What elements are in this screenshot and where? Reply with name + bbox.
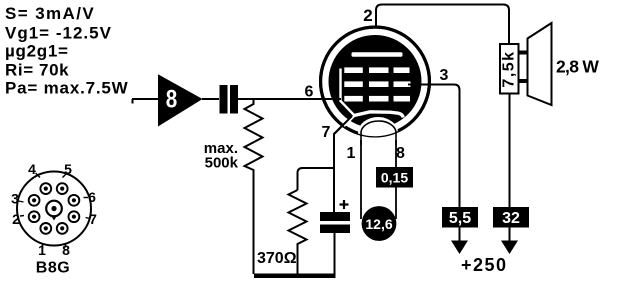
heater filament arc bbox=[361, 121, 396, 145]
cathode resistor 370 ohm bbox=[289, 190, 307, 274]
wire capacitor to tube grid bbox=[238, 98, 339, 100]
svg-text:32: 32 bbox=[502, 210, 520, 227]
svg-text:370Ω: 370Ω bbox=[257, 250, 297, 267]
outer circle thin edge across dome bbox=[320, 26, 431, 137]
svg-text:+250: +250 bbox=[461, 255, 508, 275]
svg-text:3: 3 bbox=[440, 67, 449, 84]
screen supply label 5,5 bbox=[442, 207, 478, 228]
heater voltage label 12,6 bbox=[362, 206, 397, 241]
supply arrow left bbox=[451, 241, 468, 255]
svg-text:4: 4 bbox=[28, 161, 36, 177]
heater dome cutout bbox=[358, 117, 398, 146]
supply arrow right bbox=[501, 241, 518, 255]
grid g2 row dashes bbox=[344, 81, 363, 87]
anode plate bar bbox=[352, 52, 403, 56]
svg-text:6: 6 bbox=[88, 189, 96, 205]
tube envelope U1 outer ring bbox=[321, 27, 430, 136]
svg-text:500k: 500k bbox=[205, 155, 239, 172]
svg-text:7: 7 bbox=[322, 124, 331, 141]
grid g3 row dashes bbox=[344, 67, 363, 73]
socket pin 7 bbox=[69, 211, 80, 222]
loudspeaker cone bbox=[528, 23, 552, 105]
ground rail bbox=[254, 274, 336, 279]
svg-text:3: 3 bbox=[11, 191, 19, 207]
svg-text:6: 6 bbox=[305, 84, 314, 101]
svg-text:S= 3mA/V: S= 3mA/V bbox=[5, 4, 95, 23]
socket pin 3 bbox=[29, 195, 40, 206]
svg-text:8: 8 bbox=[396, 145, 405, 162]
svg-text:2,8 W: 2,8 W bbox=[556, 57, 599, 77]
svg-text:1: 1 bbox=[347, 145, 356, 162]
wire pin7 crossing ring bbox=[334, 116, 352, 134]
svg-text:Ri= 70k: Ri= 70k bbox=[5, 61, 69, 80]
g3 to cathode internal strap bbox=[341, 69, 355, 127]
svg-text:7: 7 bbox=[89, 211, 97, 227]
wire triangle to capacitor bbox=[202, 98, 219, 100]
heater wire pin 8 bbox=[395, 140, 397, 219]
socket pin 5 bbox=[57, 183, 68, 194]
svg-text:5,5: 5,5 bbox=[449, 210, 471, 227]
speaker coupling stubs bbox=[519, 53, 528, 82]
plus sign of C2 bbox=[340, 200, 349, 209]
socket pin 1 bbox=[40, 223, 51, 234]
svg-text:0,15: 0,15 bbox=[381, 170, 408, 186]
coupling capacitor C1 bbox=[220, 85, 228, 114]
output transformer primary 7,5k bbox=[500, 44, 519, 94]
wire transformer to supply bbox=[509, 94, 511, 241]
tube inner disc bbox=[329, 35, 422, 128]
heater wire pin 1 bbox=[360, 140, 362, 219]
svg-text:2: 2 bbox=[363, 6, 372, 25]
electrolytic capacitor C2 bbox=[320, 212, 350, 221]
socket pin 4 bbox=[40, 183, 51, 194]
anode wire pin2 top bbox=[376, 5, 509, 53]
anode current label 32 bbox=[493, 207, 529, 228]
wire branch to cathode resistor bbox=[298, 168, 334, 190]
input transducer triangle bbox=[158, 74, 203, 126]
cathode bar bbox=[354, 112, 403, 118]
wire grid g1 to pin 6 bbox=[320, 98, 341, 100]
grid g1 row dashes bbox=[344, 96, 363, 102]
svg-text:7,5k: 7,5k bbox=[501, 50, 518, 87]
socket center spigot bbox=[46, 201, 62, 217]
svg-text:B8G: B8G bbox=[36, 260, 70, 277]
heater current label 0,15 bbox=[376, 167, 413, 188]
tube socket B8G outline bbox=[17, 172, 91, 246]
svg-text:8: 8 bbox=[166, 86, 178, 114]
cathode wire pin7 down bbox=[334, 116, 352, 212]
socket pin 8 bbox=[57, 223, 68, 234]
svg-text:Pa= max.7.5W: Pa= max.7.5W bbox=[5, 79, 129, 98]
socket pin 2 bbox=[29, 211, 40, 222]
svg-text:µg2g1=: µg2g1= bbox=[5, 42, 69, 61]
wire input left bbox=[132, 99, 159, 104]
wire 5,5 to arrow bbox=[459, 228, 461, 241]
grid resistor max 500k bbox=[245, 99, 263, 274]
svg-text:2: 2 bbox=[12, 211, 20, 227]
wire screen grid pin3 bbox=[408, 85, 460, 208]
socket pin 6 bbox=[69, 195, 80, 206]
svg-text:Vg1= -12.5V: Vg1= -12.5V bbox=[5, 24, 112, 43]
svg-text:12,6: 12,6 bbox=[365, 216, 392, 232]
